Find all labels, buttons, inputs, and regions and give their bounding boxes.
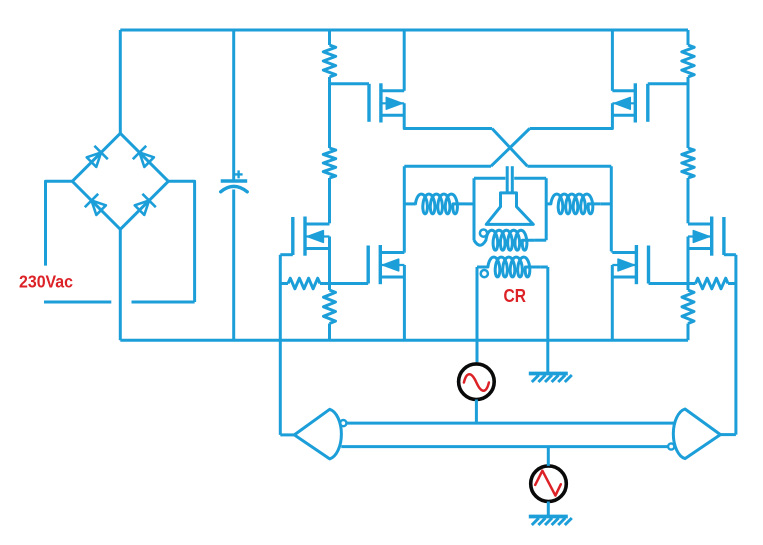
- wire bridge bottom vertex to ground bus: [119, 229, 122, 340]
- diode D4 (bottom-right arm): [135, 201, 149, 215]
- diode D1 (left-top arm): [87, 153, 101, 167]
- wire Q6 source to bus: [611, 265, 614, 340]
- wire VCC to resistor R3: [687, 30, 690, 45]
- wire AC input right terminal: [168, 181, 194, 302]
- svg-text:CR: CR: [504, 285, 527, 306]
- wire T1 secondary right lead: [540, 266, 547, 269]
- wire Q3 source to node J1: [328, 237, 331, 284]
- wire Q3 gate lead: [280, 253, 293, 256]
- resistor R4: [682, 148, 694, 178]
- wire J1 to R7: [328, 284, 331, 291]
- wire AC input left terminal: [46, 181, 73, 265]
- inductor L2: [551, 194, 601, 214]
- transistor Q3 (left outer MOSFET): [291, 217, 294, 255]
- wire R1 to node G1: [328, 77, 331, 148]
- wire left drive line: [279, 255, 282, 435]
- wire J2 to Q6 gate: [649, 282, 689, 285]
- source V1 (sine): [459, 364, 495, 400]
- wire Q2 drain: [611, 30, 614, 91]
- wire T1 primary right lead: [534, 239, 546, 242]
- wire L1 left lead: [404, 202, 415, 205]
- wire R4 to Q4 drain: [687, 178, 690, 223]
- svg-text:230Vac: 230Vac: [19, 272, 73, 292]
- wire lamp box top-left: [474, 177, 505, 180]
- wire Q5 drain: [403, 251, 406, 252]
- wire G1 node to Q1 gate: [330, 82, 370, 85]
- wire oscillator top line: [346, 422, 674, 425]
- transistor Q1 (top-left MOSFET): [367, 84, 370, 122]
- wire T1 secondary left lead down to V1: [476, 267, 479, 362]
- wire lamp box top-right: [514, 177, 546, 180]
- wire R6 to drive: [728, 282, 736, 285]
- wire top VCC rail: [120, 29, 688, 32]
- resistor R7 (left, J1 to bus): [324, 290, 336, 324]
- wire bottom bus: [120, 339, 688, 342]
- wire R3 to node G2: [687, 77, 690, 148]
- wire Q5 source to bus: [403, 265, 406, 340]
- resistor R6 (right gate): [696, 278, 729, 289]
- diode D3 (bottom-left arm): [92, 201, 106, 215]
- wire lamp box right side: [545, 178, 548, 240]
- wire R8 to bus: [687, 324, 690, 341]
- lamp CCFL tube: [486, 193, 533, 225]
- wire V2 bottom to ground: [547, 502, 550, 516]
- wire cross right-to-left: [491, 129, 530, 167]
- wire U1 apex lead: [280, 433, 294, 436]
- oscillator gate U1 (left): [294, 409, 341, 459]
- source V2 (triangle): [531, 466, 567, 502]
- transistor Q5 (left inner MOSFET): [367, 246, 370, 284]
- transistor Q4 (right outer MOSFET): [722, 217, 725, 255]
- wire oscillator bottom line: [341, 445, 668, 448]
- wire lamp box left side: [473, 178, 476, 240]
- wire J1 to Q5 gate: [330, 282, 369, 285]
- gate U2 input bubble: [668, 443, 674, 449]
- wire VCC to resistor R1: [328, 30, 331, 45]
- wire L2 left lead: [546, 202, 550, 205]
- resistor R2: [323, 148, 335, 178]
- ground (V2): [529, 515, 568, 519]
- wire V1 bottom to osc top line: [475, 400, 478, 424]
- resistor R8 (right, J2 to bus): [682, 290, 694, 324]
- wire L2 right lead: [600, 202, 611, 205]
- diode D2 (top-right arm): [140, 153, 154, 167]
- wire right drive line: [734, 255, 737, 435]
- wire tank right side: [610, 166, 613, 251]
- inductor L1: [415, 194, 466, 214]
- transformer T1 primary winding: [474, 230, 534, 250]
- resistor R1: [323, 45, 335, 77]
- wire Q4 source to node J2: [687, 237, 690, 284]
- wire R5 to J1: [320, 282, 330, 285]
- wire bridge top vertex to VCC rail: [119, 30, 122, 133]
- wire drive to R5: [280, 282, 288, 285]
- transformer T1 secondary winding: [477, 257, 540, 277]
- wire R2 to Q3 drain: [328, 178, 331, 223]
- wire U2 output lead: [720, 433, 736, 436]
- wire G2 node to Q2 gate: [648, 82, 688, 85]
- transistor Q6 (right inner MOSFET): [647, 246, 650, 284]
- wire lamp lead left: [506, 166, 509, 193]
- wire Q2 source: [530, 103, 613, 128]
- ground (transformer secondary): [529, 372, 568, 376]
- wire T1 secondary right lead down to ground: [546, 267, 549, 372]
- wire R7 to bus: [328, 324, 331, 341]
- wire J2 to R8: [687, 284, 690, 291]
- wire Q1 source: [404, 103, 492, 128]
- wire V2 top to osc bottom line: [547, 447, 550, 466]
- capacitor C1 polarized: [232, 30, 235, 181]
- gate U1 output bubble: [340, 420, 346, 426]
- wire lamp lead right: [511, 166, 514, 193]
- wire Q1 drain: [403, 30, 406, 91]
- wire tank top-right segment: [527, 165, 611, 168]
- wire J2 to R6: [688, 282, 696, 285]
- wire cross left-to-right: [492, 129, 527, 167]
- transformer T1 secondary polarity dot: [481, 270, 488, 277]
- wire L1 right lead: [466, 202, 474, 205]
- oscillator gate U2 (right): [673, 409, 720, 459]
- wire tank left side: [403, 166, 406, 251]
- resistor R3: [682, 45, 694, 77]
- wire Q6 drain: [611, 251, 614, 252]
- transformer T1 primary polarity dot: [480, 230, 487, 237]
- transistor Q2 (top-right MOSFET): [646, 84, 649, 122]
- wire Q4 gate lead: [724, 253, 736, 256]
- bridge rectifier diamond: [72, 133, 168, 229]
- resistor R5 (left gate): [288, 278, 320, 289]
- wire tank top-left segment: [404, 165, 491, 168]
